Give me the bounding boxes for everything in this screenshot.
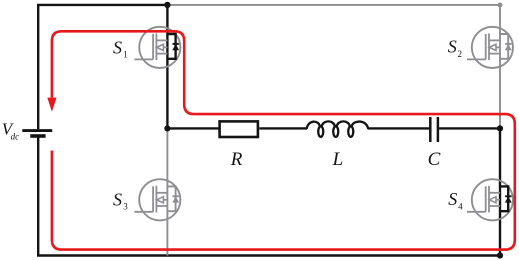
wire: red current loop: [52, 31, 515, 249]
transistor S2 body (circle + gate + channel, gray): [467, 27, 513, 68]
wire: battery + top rail (black): [38, 5, 167, 129]
transistor S2 body-diode branch: [500, 34, 512, 59]
battery Vdc short plate: [30, 134, 45, 138]
wire: S4 leg (black, mid rail to bottom rail): [499, 128, 501, 255]
svg-text:1: 1: [123, 50, 128, 60]
transistor S3 body-diode branch: [167, 186, 179, 211]
wire: mid rail C to right leg: [439, 127, 500, 129]
node: mid rail left junction: [164, 125, 170, 131]
transistor S4 body (circle + gate + channel, gray): [467, 179, 513, 220]
svg-text:S: S: [113, 37, 122, 57]
transistor S1 body (circle + gate + channel, gray): [134, 27, 180, 68]
wire: gray top rail to S2 leg: [167, 5, 500, 128]
battery Vdc long plate: [22, 129, 52, 132]
svg-text:2: 2: [458, 49, 463, 59]
svg-text:C: C: [428, 149, 441, 170]
wire: mid rail R to L: [259, 127, 307, 129]
inductor L: [307, 121, 369, 136]
wire: S1 leg (black, top rail to mid rail): [166, 5, 168, 128]
transistor S3 body (circle + gate + channel, gray): [134, 179, 180, 220]
svg-text:dc: dc: [11, 132, 20, 142]
svg-text:S: S: [113, 189, 122, 209]
node: bottom rail / S4 junction: [497, 252, 503, 258]
svg-text:3: 3: [123, 202, 128, 212]
svg-text:4: 4: [458, 201, 463, 211]
node: top right corner (gray): [498, 3, 503, 8]
resistor R: [220, 121, 258, 137]
node: top rail / S1 junction: [164, 2, 170, 8]
wire: mid rail left segment: [167, 127, 218, 129]
svg-text:R: R: [230, 149, 243, 170]
svg-text:L: L: [332, 149, 344, 170]
wire: mid rail L to C: [368, 127, 429, 129]
node: mid rail right junction: [497, 125, 503, 131]
transistor S1 body-diode branch: [167, 34, 179, 59]
transistor S4 body-diode branch: [500, 186, 512, 211]
capacitor C plates: [429, 117, 432, 142]
wire: S3 leg (gray, mid rail to bottom rail): [166, 128, 168, 255]
red current arrow: [47, 98, 56, 112]
svg-text:S: S: [448, 189, 457, 209]
wire: battery to bottom rail (black): [38, 137, 500, 255]
svg-text:S: S: [448, 37, 457, 57]
